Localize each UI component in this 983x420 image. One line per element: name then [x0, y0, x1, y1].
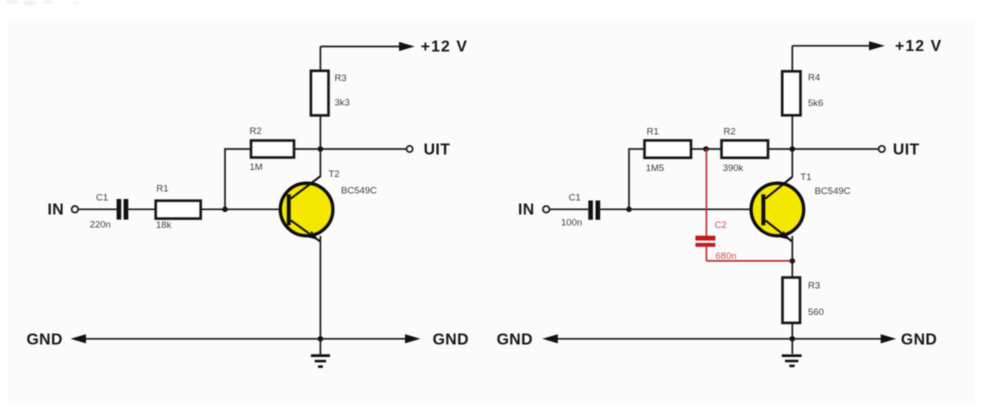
wire C1 to base of T1	[600, 208, 761, 210]
resistor R3 (left, 3k3)	[311, 71, 329, 116]
transistor T1 BC549C	[751, 177, 804, 242]
svg-text:C2: C2	[715, 220, 727, 231]
svg-text:BC549C: BC549C	[341, 186, 377, 197]
wire C1 to R1	[128, 208, 155, 210]
wire emitter down to ground rail	[319, 236, 321, 339]
svg-text:1M5: 1M5	[646, 163, 664, 174]
terminal UIT (right)	[879, 146, 885, 152]
label IN (left)	[48, 202, 65, 219]
power +12V arrow (right)	[869, 41, 885, 50]
terminal IN (left)	[72, 206, 79, 213]
svg-text:5k6: 5k6	[808, 98, 823, 109]
label BC549C (left)	[341, 186, 377, 197]
capacitor C1 (left, 220n)	[117, 199, 129, 220]
svg-text:IN: IN	[518, 202, 535, 219]
svg-text:UIT: UIT	[893, 141, 920, 158]
svg-text:3k3: 3k3	[335, 98, 350, 109]
node collector/R2/UIT junction	[318, 146, 324, 152]
wire R2 left to feedback corner	[224, 148, 251, 150]
node R1/R2/C2 junction	[703, 146, 709, 152]
label T2	[329, 169, 340, 180]
svg-text:C1: C1	[96, 192, 108, 203]
svg-text:R2: R2	[250, 126, 262, 137]
terminal IN (right)	[543, 206, 550, 213]
value 1M5	[646, 163, 664, 174]
label C2 (red)	[715, 220, 727, 231]
svg-text:1M: 1M	[250, 162, 263, 173]
resistor R1 (left, 18k)	[156, 201, 201, 219]
label +12 V (right)	[895, 38, 942, 55]
label R2	[250, 126, 262, 137]
resistor R2 (right, 390k)	[722, 140, 769, 157]
node R3/ground junction (right)	[790, 336, 796, 342]
node emitter/C2 junction	[790, 258, 796, 264]
label GND left (left circuit)	[27, 331, 63, 348]
wire R3 bottom to ground rail (right)	[791, 323, 793, 339]
label BC549C (right)	[815, 186, 851, 197]
svg-text:+12 V: +12 V	[421, 39, 468, 56]
wire +12V rail (right)	[792, 45, 870, 47]
svg-text:IN: IN	[48, 202, 65, 219]
label C1	[96, 192, 108, 203]
node base/R2 junction	[222, 207, 228, 213]
label T1	[800, 172, 811, 183]
svg-text:18k: 18k	[156, 220, 172, 231]
svg-text:560: 560	[808, 307, 824, 318]
arrow GND right (left circuit)	[405, 334, 420, 343]
wire R1-R2 (right)	[691, 148, 722, 150]
label R3 (right)	[808, 281, 820, 292]
svg-text:R1: R1	[647, 127, 659, 138]
wire GND rail (right)	[556, 338, 882, 340]
label IN (right)	[518, 202, 535, 219]
svg-text:T2: T2	[329, 169, 340, 180]
label GND right (right circuit)	[901, 331, 937, 348]
label +12 V (left)	[421, 39, 468, 56]
svg-text:GND: GND	[27, 331, 63, 348]
svg-text:UIT: UIT	[424, 141, 451, 158]
svg-text:R4: R4	[808, 73, 820, 84]
value 560	[808, 307, 824, 318]
node emitter/ground junction (left)	[318, 336, 324, 342]
wire collector node to UIT	[294, 148, 406, 150]
value 390k	[723, 163, 744, 174]
wire C2 red from R1/R2 node down	[705, 149, 707, 236]
svg-text:GND: GND	[497, 331, 533, 348]
value 5k6	[808, 98, 823, 109]
value 680n (red)	[715, 251, 736, 262]
svg-text:R2: R2	[724, 127, 736, 138]
resistor R2 (left, 1M)	[251, 141, 294, 158]
transistor T2 BC549C	[280, 176, 333, 241]
label R2 (right)	[724, 127, 736, 138]
svg-text:220n: 220n	[90, 219, 111, 230]
label GND right (left circuit)	[433, 331, 469, 348]
wire +12V rail (left)	[320, 46, 400, 48]
svg-text:T1: T1	[800, 172, 811, 183]
capacitor C2 (red, 680n)	[695, 236, 715, 247]
svg-text:R3: R3	[808, 281, 820, 292]
wire R1 to base of T2	[201, 208, 287, 210]
wire C2 red down and right to emitter	[706, 247, 792, 261]
label UIT (left)	[424, 141, 451, 158]
svg-text:390k: 390k	[723, 163, 744, 174]
label GND left (right circuit)	[497, 331, 533, 348]
wire emitter down to R3 (right)	[791, 236, 793, 278]
wire feedback down to base node (right)	[628, 148, 630, 209]
terminal UIT (left)	[407, 146, 413, 152]
wire base row to R1 (right)	[629, 148, 645, 150]
wire R2 to collector node and UIT	[768, 148, 879, 150]
node collector/UIT junction (right)	[790, 146, 796, 152]
svg-text:100n: 100n	[561, 218, 582, 229]
label R3	[335, 73, 347, 84]
arrow GND left (right circuit)	[542, 334, 558, 343]
power +12V arrow (left)	[399, 42, 415, 51]
label R1	[156, 183, 168, 194]
resistor R3 (right, 560)	[783, 278, 801, 323]
value 100n	[561, 218, 582, 229]
svg-text:C1: C1	[569, 192, 581, 203]
label R4	[808, 73, 820, 84]
value 220n	[90, 219, 111, 230]
arrow GND right (right circuit)	[881, 334, 897, 343]
label R1 (right)	[647, 127, 659, 138]
arrow GND left (left circuit)	[71, 334, 87, 343]
svg-text:R1: R1	[156, 183, 168, 194]
ground symbol (left)	[311, 339, 330, 367]
svg-text:BC549C: BC549C	[815, 186, 851, 197]
wire +12V rail down to R4	[791, 46, 793, 72]
wire R4 bottom to collector	[791, 115, 793, 177]
wire feedback down to base node	[224, 148, 226, 209]
value 1M	[250, 162, 263, 173]
label C1 (right)	[569, 192, 581, 203]
wire from +12V rail down to R3	[319, 47, 321, 72]
wire GND rail (left)	[84, 338, 407, 340]
svg-text:GND: GND	[433, 331, 469, 348]
label UIT (right)	[893, 141, 920, 158]
resistor R1 (right, 1M5)	[645, 140, 692, 157]
capacitor C1 (right, 100n)	[588, 201, 600, 220]
wire IN to C1 (right)	[550, 208, 589, 210]
svg-text:GND: GND	[901, 331, 937, 348]
value 3k3	[335, 98, 350, 109]
svg-text:+12 V: +12 V	[895, 38, 942, 55]
wire R3 bottom to collector	[319, 115, 321, 177]
ground symbol (right)	[782, 339, 802, 366]
wire IN to C1	[78, 208, 116, 210]
resistor R4 (right, 5k6)	[782, 71, 800, 115]
value 18k	[156, 220, 172, 231]
svg-text:R3: R3	[335, 73, 347, 84]
node base junction (right)	[626, 207, 632, 213]
